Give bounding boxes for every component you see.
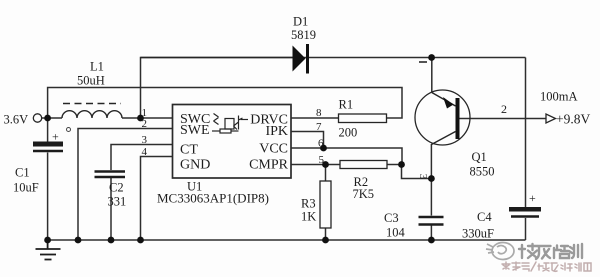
wire pin4 GND [141,157,173,241]
resistor R1 [339,114,387,123]
svg-text:R1: R1 [339,98,354,112]
node SWC / L1 [137,115,144,122]
svg-text:3.6V: 3.6V [4,113,29,127]
svg-text:D1: D1 [293,15,308,29]
svg-text:8550: 8550 [470,165,495,179]
svg-text:200: 200 [339,126,358,140]
rail dot R3 [322,237,329,244]
wire R3 bottom [325,228,327,240]
svg-text:331: 331 [108,195,127,209]
wire bottom ground rail [48,239,526,241]
svg-text:7: 7 [316,121,322,133]
svg-text:8: 8 [316,107,322,119]
wire top rail [141,58,526,119]
svg-text:3: 3 [417,174,429,180]
pin numbers [142,107,325,166]
rail dot pin4 [137,237,144,244]
svg-text:+: + [52,130,59,144]
wire input to L1 [42,117,62,119]
wire pin8 DRVC to R1 [291,117,339,119]
diode D1 [141,44,310,74]
svg-text:C3: C3 [384,211,399,225]
capacitor C3 [419,217,444,225]
wire C1 bottom to rail [47,153,49,241]
watermark logo [486,243,514,260]
resistor R2 [340,161,387,169]
node pin7-pin6 [320,145,327,152]
wire pin5 CMPR to R2 [291,164,340,166]
svg-text:C2: C2 [109,181,124,195]
node D1 cathode / emitter [428,54,435,61]
capacitor C4 [509,191,541,217]
node R2 / VCC [398,161,405,168]
svg-text:1K: 1K [301,210,316,224]
capacitor C2 [95,172,126,178]
svg-text:2: 2 [142,118,148,130]
svg-text:IPK: IPK [265,124,288,139]
svg-text:L1: L1 [90,60,104,74]
node 3.6V input [44,115,51,122]
ground [36,240,61,260]
wire R2 right to node [387,164,402,166]
polarity dot mark [67,128,71,132]
svg-text:MC33063AP1(DIP8): MC33063AP1(DIP8) [157,191,269,206]
value labels [4,15,591,241]
wire Q1 emitter lead [431,58,433,93]
transistor Q1 [415,90,470,145]
wire pin2 SWE [78,129,173,241]
svg-text:104: 104 [386,226,406,240]
wire C2 to ground rail [110,178,112,240]
IC U1 box [173,105,292,179]
svg-text:4: 4 [142,146,148,158]
watermark subtext 头条号 / 技成培训网 [502,262,591,271]
svg-text:R3: R3 [301,197,316,211]
svg-text:330uF: 330uF [462,227,494,241]
svg-text:3: 3 [142,134,148,146]
rail dot C1 [44,237,51,244]
capacitor C1 [33,130,63,152]
svg-text:5819: 5819 [291,28,316,42]
wire C3 to rail [430,226,432,241]
Q1 pin 1 label (rotated) [419,61,427,63]
wire C1 top [47,118,49,142]
svg-text:SWE: SWE [180,123,210,138]
rail dot pin2 [75,237,82,244]
svg-text:VCC: VCC [259,142,288,157]
resistor R3 [320,181,331,228]
watermark text 技成培训 [519,244,582,259]
svg-text:+9.8V: +9.8V [556,112,590,127]
wire right rail to C4 [525,58,527,208]
wire R3 top [325,165,327,182]
wire C4 bottom [525,218,527,240]
wire Q1 collector lead [430,144,432,179]
svg-text:Q1: Q1 [472,150,487,164]
terminal 3.6V [33,114,41,122]
svg-text:50uH: 50uH [77,74,105,88]
rail dot C2 [108,237,115,244]
svg-text:5: 5 [319,154,325,166]
svg-text:100mA: 100mA [540,90,578,104]
svg-text:7K5: 7K5 [353,187,375,201]
IC pin names [180,112,289,173]
svg-text:CT: CT [180,143,198,158]
wire node to collector line [402,165,432,179]
svg-text:GND: GND [180,158,210,173]
wire pin3 CT to C2 [111,145,173,171]
IC internal driver symbols [212,114,248,134]
wire Q1 base output [458,118,546,120]
rail dot C3 [428,237,435,244]
output arrow [546,114,556,123]
wire collector to C3 [430,179,432,216]
wire 3.6V feedback rail to R1 [48,88,402,119]
svg-text:6: 6 [318,138,324,150]
svg-text:10uF: 10uF [13,181,39,195]
inductor L1 [62,104,122,119]
svg-text:C4: C4 [477,210,492,224]
svg-text:2: 2 [501,102,507,116]
svg-text:+: + [529,191,536,205]
wire L1 to node [122,117,173,119]
svg-text:CMPR: CMPR [249,158,289,173]
wire pin7 IPK [291,132,324,149]
node collector / C3 [428,175,435,182]
wire pin6 VCC [291,148,402,165]
node pin5 / R3 [322,161,329,168]
svg-text:C1: C1 [15,166,30,180]
